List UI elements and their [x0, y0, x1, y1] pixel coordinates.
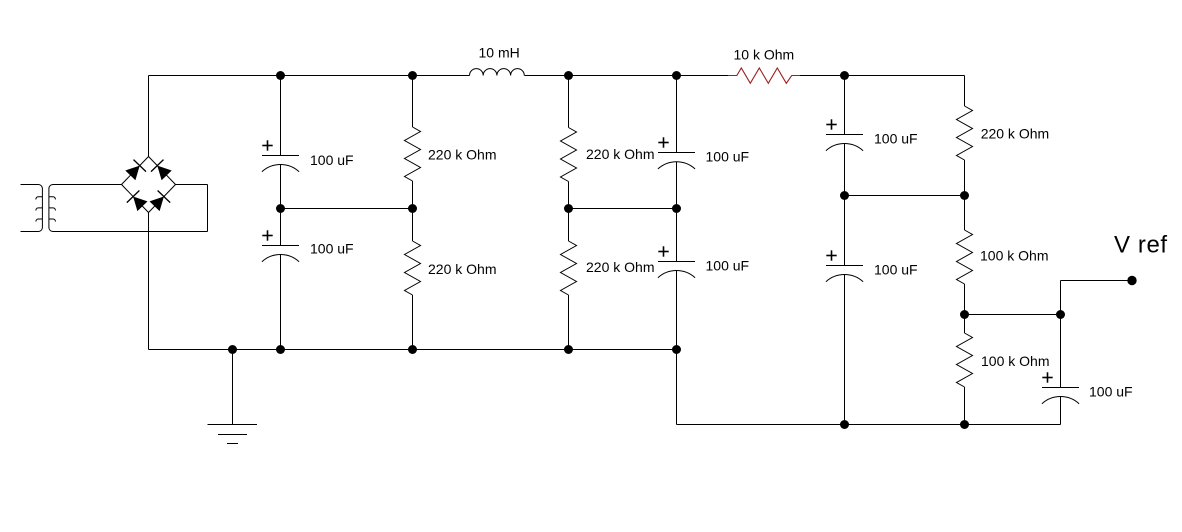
resistor R5 220 k Ohm	[957, 106, 973, 160]
wire Vref horizontal	[1061, 280, 1133, 282]
wire Vref vertical	[1060, 281, 1062, 315]
wire col R4 top	[568, 209, 570, 242]
svg-text:100 uF: 100 uF	[874, 131, 918, 147]
diode D3 (- to AC1)	[127, 191, 148, 212]
node junction 2	[408, 71, 417, 80]
label R3 value	[586, 146, 654, 162]
wire col C2 bottom	[280, 255, 282, 350]
wire col C4 top	[676, 209, 678, 262]
wire col C6 bottom	[844, 275, 846, 425]
wire top rail mid segment	[525, 75, 729, 77]
svg-text:220 k Ohm: 220 k Ohm	[586, 146, 654, 162]
wire mid row C5-R5 chain	[845, 195, 965, 197]
capacitor C7 100 uF	[1042, 372, 1079, 403]
node junction 20	[960, 420, 969, 429]
wire col C6 top	[844, 196, 846, 266]
node junction 11	[960, 191, 969, 200]
diode D2 (AC2 to +)	[151, 160, 172, 181]
node junction 15	[276, 345, 285, 354]
wire bottom rail left section	[149, 349, 677, 351]
wire col R1 bottom	[412, 181, 414, 209]
wire top rail left segment	[149, 75, 470, 77]
wire bottom rail right section	[677, 424, 1061, 426]
wire col C5 bottom	[844, 144, 846, 196]
wire col R3 top	[568, 76, 570, 128]
wire bridge bottom to ground rail	[148, 212, 150, 350]
svg-text:100 uF: 100 uF	[874, 262, 918, 278]
wire top rail right segment	[800, 75, 965, 77]
resistor R6 100 k Ohm	[957, 230, 973, 284]
svg-text:220 k Ohm: 220 k Ohm	[428, 261, 496, 277]
wire col R3 bottom	[568, 182, 570, 209]
wire bridge AC2 right lead	[176, 184, 208, 186]
wire C7 top stub	[1060, 315, 1062, 388]
svg-text:220 k Ohm: 220 k Ohm	[586, 259, 654, 275]
ground symbol	[208, 425, 258, 444]
inductor L1 10 mH	[470, 69, 525, 76]
label R4 value	[586, 259, 654, 275]
wire col R5 top	[964, 76, 966, 107]
wire right rail vertical at 676	[676, 350, 678, 425]
svg-text:100 uF: 100 uF	[310, 240, 354, 256]
wire col C3 bottom	[676, 162, 678, 209]
svg-text:100 uF: 100 uF	[706, 258, 750, 274]
node junction 16	[408, 345, 417, 354]
node junction 3	[564, 71, 573, 80]
svg-text:100 k Ohm: 100 k Ohm	[980, 248, 1048, 264]
node junction 5	[840, 71, 849, 80]
node junction 13	[1056, 310, 1065, 319]
bridge rectifier outline	[122, 157, 176, 213]
wire col C1 top	[280, 76, 282, 156]
wire col R7 bottom	[964, 387, 966, 425]
svg-text:220 k Ohm: 220 k Ohm	[428, 147, 496, 163]
label R2 value	[428, 261, 496, 277]
node junction 19	[840, 420, 849, 429]
svg-text:100 uF: 100 uF	[310, 152, 354, 168]
wire col R4 bottom	[568, 295, 570, 350]
node junction 7	[408, 204, 417, 213]
capacitor C7 100 uF label	[1089, 384, 1133, 400]
svg-text:10 k Ohm: 10 k Ohm	[734, 47, 795, 63]
wire col R5-R6 link	[964, 160, 966, 230]
node V ref terminal	[1127, 276, 1136, 285]
diode D1 (AC1 to +)	[125, 160, 146, 181]
ground stub wire	[232, 350, 234, 425]
capacitor C1 100 uF	[262, 140, 299, 171]
wire col R2 bottom	[412, 295, 414, 350]
wire mid row C1-R1	[281, 208, 413, 210]
wire col R6-R7 link	[964, 284, 966, 333]
wire col R1 top	[412, 76, 414, 128]
transformer T1 secondary winding	[49, 185, 208, 232]
capacitor C2 100 uF label	[310, 240, 354, 256]
label R1 value	[428, 147, 496, 163]
resistor R2 220 k Ohm	[405, 241, 421, 295]
wire mid tap R6-C7	[965, 314, 1061, 316]
label R5 value	[981, 126, 1049, 142]
node junction 1	[276, 71, 285, 80]
svg-text:V ref: V ref	[1114, 231, 1168, 258]
capacitor C4 100 uF	[658, 246, 695, 277]
capacitor C5 100 uF label	[874, 131, 918, 147]
capacitor C3 100 uF	[658, 137, 695, 169]
node junction 8	[564, 204, 573, 213]
node junction 17	[564, 345, 573, 354]
wire col R2 top	[412, 209, 414, 242]
resistor R4 220 k Ohm	[561, 241, 577, 295]
resistor R3 220 k Ohm	[561, 128, 577, 182]
wire col C1 bottom	[280, 165, 282, 209]
svg-text:100 uF: 100 uF	[1089, 384, 1133, 400]
wire left drop from top rail to bridge	[148, 76, 150, 158]
diode D4 (- to AC2)	[150, 191, 171, 212]
node junction 12	[960, 310, 969, 319]
resistor R8 10 k Ohm (red)	[728, 68, 800, 83]
wire C7 bottom stub	[1060, 397, 1062, 425]
resistor R7 100 k Ohm	[957, 333, 973, 387]
node junction 10	[840, 191, 849, 200]
transformer T1 primary winding	[21, 185, 43, 232]
wire col C4 bottom	[676, 271, 678, 350]
svg-text:10 mH: 10 mH	[479, 45, 520, 61]
node junction 18	[672, 345, 681, 354]
capacitor C6 100 uF label	[874, 262, 918, 278]
wire col C3 top	[676, 76, 678, 153]
label R6 value	[980, 248, 1048, 264]
capacitor C2 100 uF	[262, 230, 299, 261]
capacitor C6 100 uF	[826, 250, 863, 281]
label L1 value	[479, 45, 520, 61]
node junction 6	[276, 204, 285, 213]
wire col C2 top	[280, 209, 282, 246]
node junction 14	[228, 345, 237, 354]
wire mid row R3-C3	[569, 208, 677, 210]
node junction 9	[672, 204, 681, 213]
label R8 value	[734, 47, 795, 63]
svg-text:220 k Ohm: 220 k Ohm	[981, 126, 1049, 142]
label V ref	[1114, 231, 1168, 258]
wire bridge AC2 drop	[207, 185, 209, 232]
capacitor C5 100 uF	[826, 119, 863, 150]
capacitor C1 100 uF label	[310, 152, 354, 168]
capacitor C4 100 uF label	[706, 258, 750, 274]
capacitor C3 100 uF label	[706, 149, 750, 165]
svg-text:100 uF: 100 uF	[706, 149, 750, 165]
wire col C5 top	[844, 76, 846, 135]
svg-text:100 k Ohm: 100 k Ohm	[981, 353, 1049, 369]
resistor R1 220 k Ohm	[405, 127, 421, 181]
node junction 4	[672, 71, 681, 80]
label R7 value	[981, 353, 1049, 369]
